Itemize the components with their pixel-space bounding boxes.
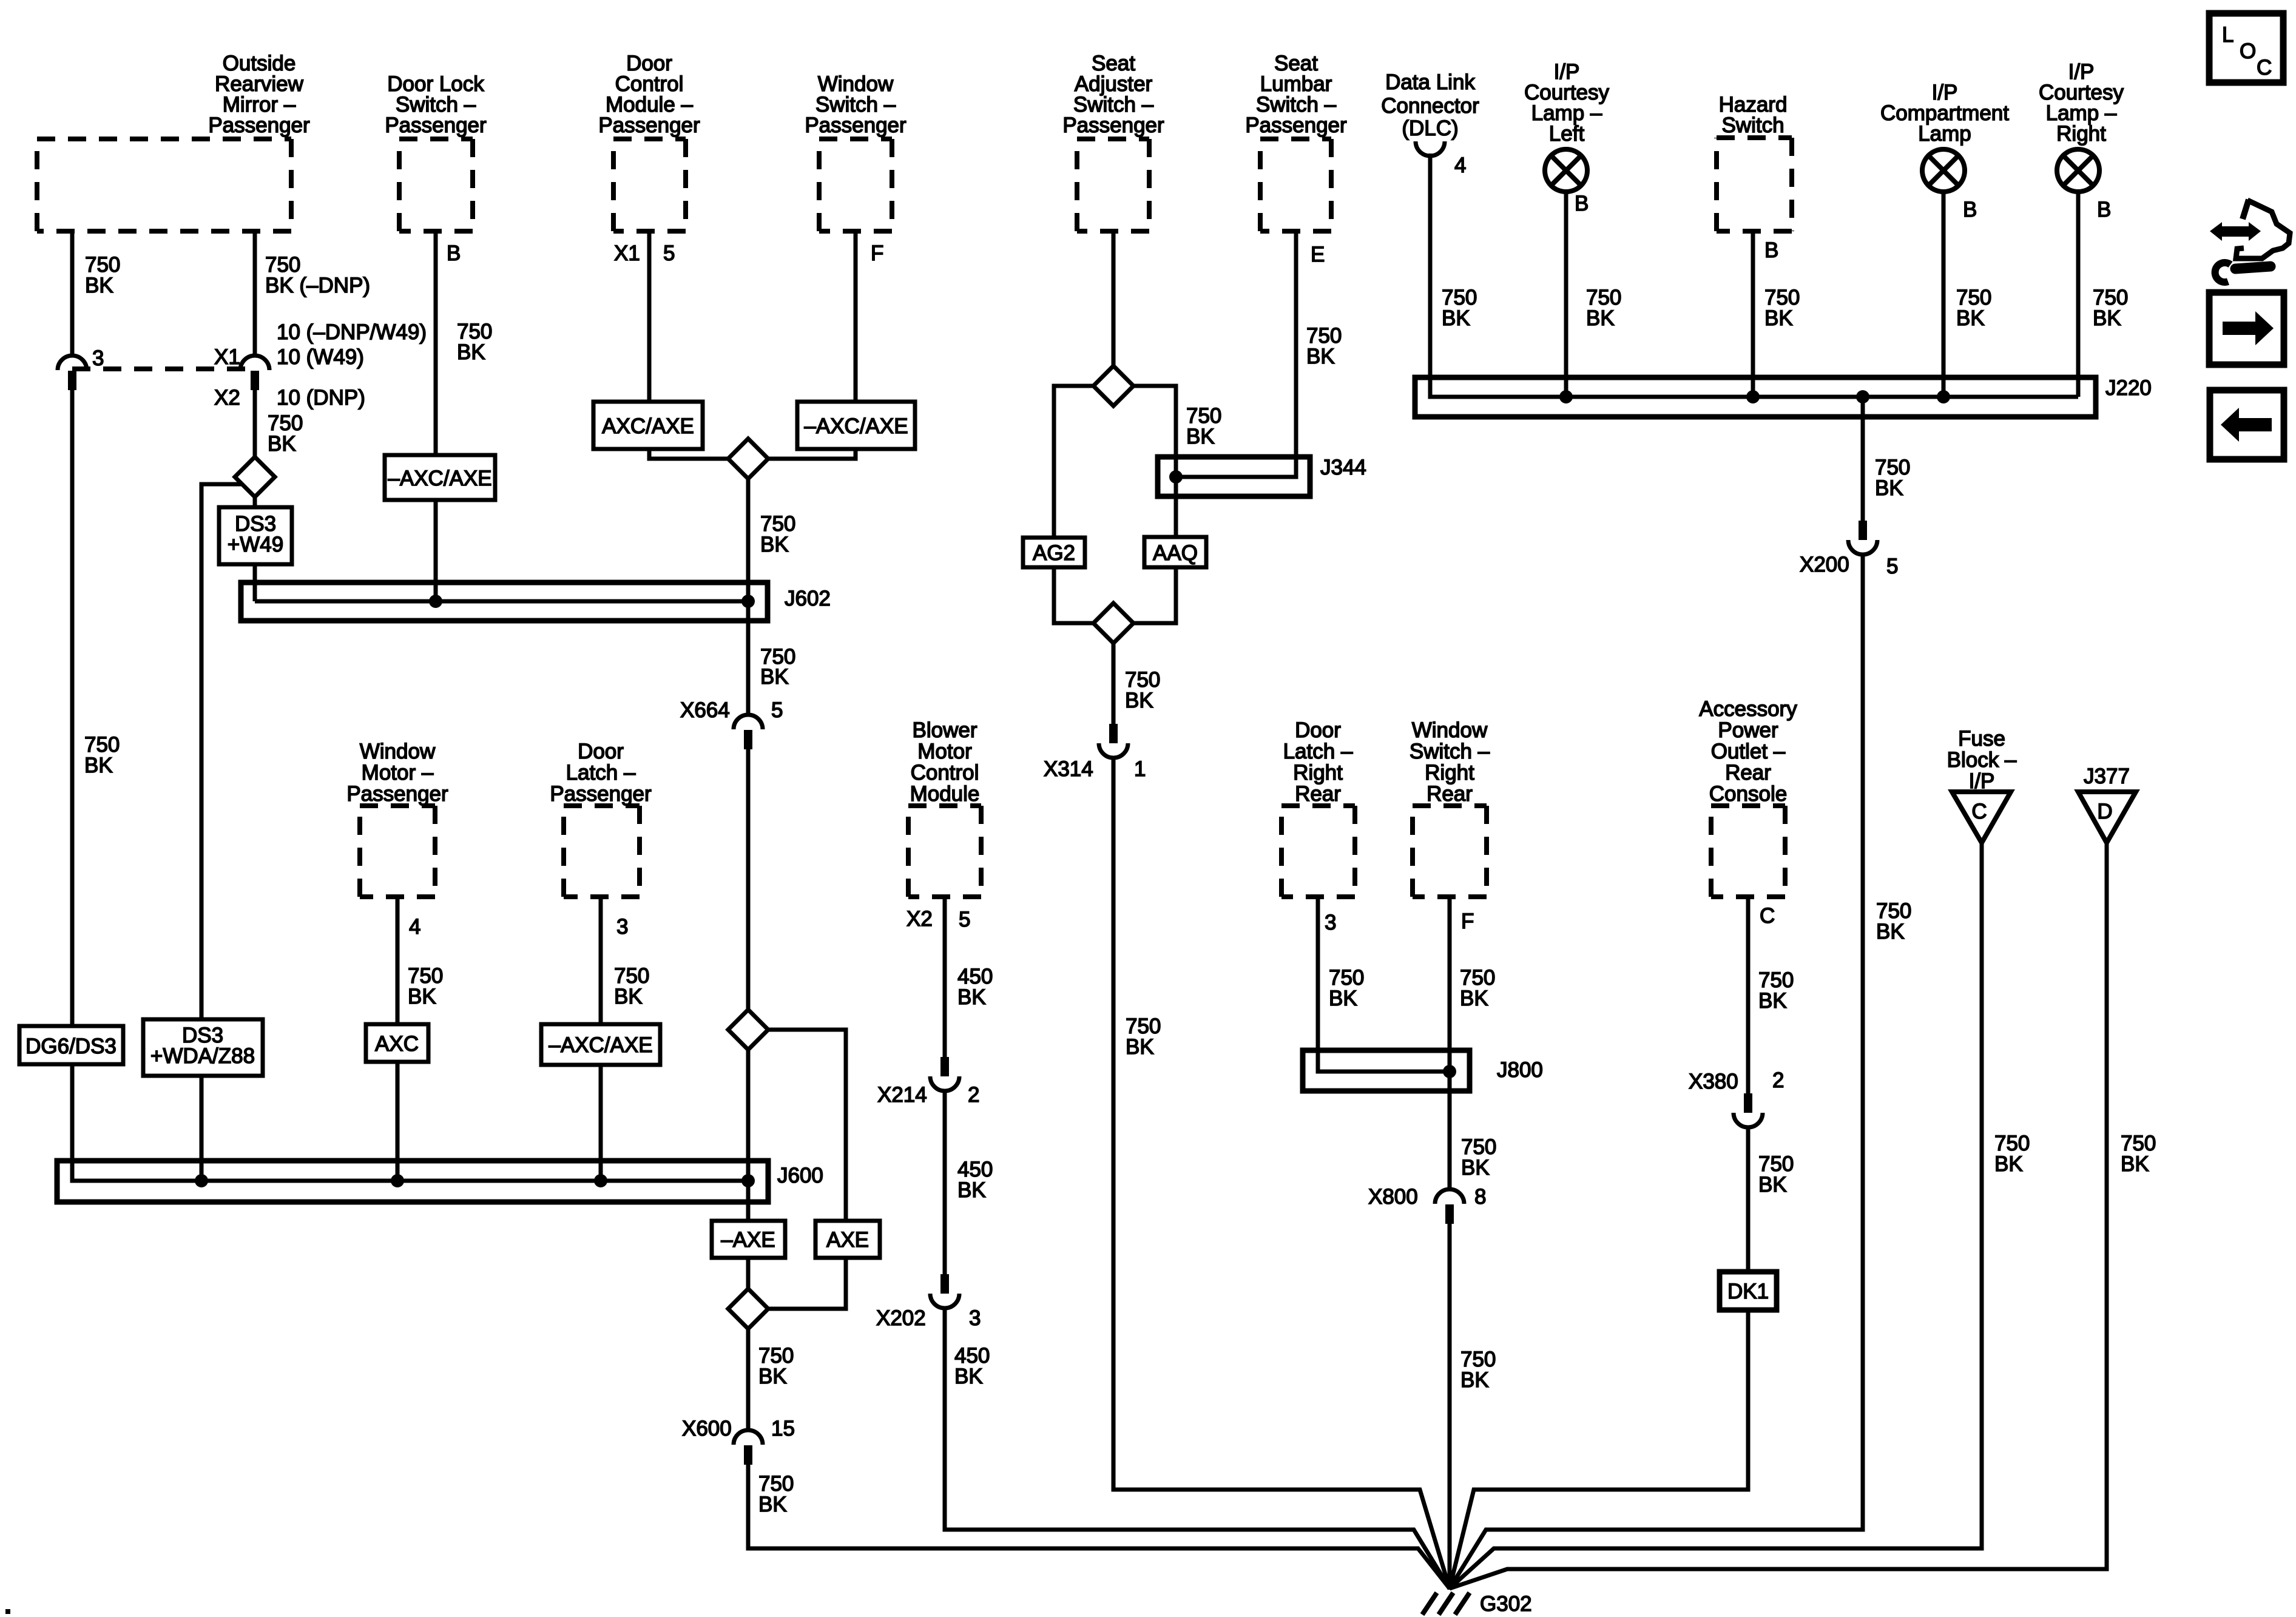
svg-text:AAQ: AAQ: [1153, 541, 1198, 565]
svg-text:F: F: [871, 241, 883, 265]
box AXC: [366, 1024, 428, 1062]
label 750 BK above X600: [758, 1344, 794, 1388]
svg-text:BK: BK: [1306, 345, 1335, 368]
svg-text:Passenger: Passenger: [550, 782, 652, 806]
label 750 BK compartment lamp: [1956, 286, 1991, 330]
svg-text:X200: X200: [1800, 553, 1849, 576]
svg-text:Window: Window: [1412, 718, 1488, 742]
svg-text:+W49: +W49: [228, 533, 283, 556]
label 750 BK J377: [2121, 1132, 2156, 1176]
wire connector 3 to DG6/DS3: [70, 389, 75, 1026]
svg-text:Power: Power: [1718, 718, 1778, 742]
junction block J600: [57, 1161, 823, 1202]
connector X202 (inline): [876, 1274, 981, 1330]
svg-text:+WDA/Z88: +WDA/Z88: [150, 1044, 255, 1068]
box DS3+WDA/Z88: [143, 1019, 263, 1076]
component Window Switch - Right Rear: [1410, 718, 1490, 897]
svg-text:Data Link: Data Link: [1385, 70, 1475, 94]
wire lamp left pin B to J220: [1564, 192, 1568, 397]
svg-text:BK: BK: [758, 1493, 787, 1516]
label 450 BK blower upper: [957, 965, 993, 1009]
lamp I/P Compartment Lamp: [1880, 81, 2009, 192]
component Door Control Module - Passenger: [598, 52, 700, 231]
svg-text:X800: X800: [1368, 1185, 1418, 1209]
wire door latch pin 3: [599, 897, 603, 1024]
label 750 BK above G302: [1460, 1348, 1496, 1392]
wire diamond to X600: [746, 1329, 751, 1430]
svg-text:BK: BK: [408, 985, 436, 1008]
box -AXC/AXE door lock: [385, 455, 495, 500]
svg-text:(DLC): (DLC): [1402, 116, 1458, 140]
component Door Latch - Passenger: [550, 740, 652, 897]
svg-text:J800: J800: [1497, 1058, 1543, 1082]
svg-text:3: 3: [616, 915, 628, 939]
wire courtesy lamp right pin B to J220: [2076, 192, 2081, 397]
svg-text:Passenger: Passenger: [1062, 113, 1164, 137]
svg-text:J377: J377: [2084, 765, 2130, 788]
svg-text:Window: Window: [360, 740, 436, 763]
svg-text:Control: Control: [911, 761, 979, 785]
wire X214 to X202: [943, 1090, 947, 1274]
svg-text:C: C: [1760, 904, 1775, 928]
svg-text:Outlet –: Outlet –: [1711, 740, 1786, 763]
svg-text:Passenger: Passenger: [598, 113, 700, 137]
svg-text:Console: Console: [1709, 782, 1787, 806]
wire diamond right branch to AXE: [768, 1030, 846, 1221]
wire Door Control Module pin X1-5: [647, 231, 652, 402]
svg-text:Connector: Connector: [1381, 94, 1479, 118]
wire J220 to X200: [1861, 397, 1865, 521]
wire -AXE to diamond: [746, 1258, 751, 1289]
junction block J800: [1303, 1050, 1543, 1091]
svg-text:X214: X214: [877, 1083, 927, 1107]
svg-text:F: F: [1461, 910, 1474, 933]
label 750 BK door lock: [457, 320, 492, 364]
connector X200 (inline): [1800, 521, 1898, 578]
svg-text:X600: X600: [682, 1417, 732, 1440]
connector X800 (inline): [1368, 1185, 1486, 1224]
svg-text:BK: BK: [1460, 1368, 1489, 1392]
wire X800 to G302: [1448, 1223, 1452, 1590]
label 750 BK below X380: [1758, 1152, 1794, 1197]
wire X202 to G302: [945, 1308, 1450, 1588]
svg-text:X1: X1: [614, 241, 640, 265]
icon service tool (arrow, outline, wrench): [2210, 200, 2290, 282]
svg-text:BK: BK: [760, 665, 789, 689]
svg-text:BK: BK: [1758, 1173, 1787, 1197]
connector X664 (inline): [680, 698, 783, 749]
svg-text:Switch: Switch: [1721, 113, 1784, 137]
svg-text:3: 3: [1325, 911, 1336, 934]
svg-text:AXC/AXE: AXC/AXE: [602, 414, 694, 438]
component Accessory Power Outlet - Rear Console: [1699, 697, 1797, 897]
label 750 BK below X600: [758, 1472, 794, 1516]
svg-text:15: 15: [771, 1417, 795, 1440]
svg-text:Block –: Block –: [1947, 748, 2017, 772]
icon LOC legend box: [2209, 13, 2283, 83]
box AXE: [815, 1221, 880, 1258]
label 750 BK above X314: [1125, 668, 1160, 712]
wire blower pin X2-5: [943, 897, 947, 1057]
component Hazard Switch: [1717, 93, 1792, 231]
wire AXC/AXE to diamond: [649, 449, 728, 459]
svg-text:AXE: AXE: [826, 1228, 869, 1252]
wire diamond left branch to DS3+WDA/Z88: [201, 484, 242, 1019]
label 750 BK hazard: [1764, 286, 1800, 330]
wire hazard pin B to J220: [1751, 231, 1755, 397]
label 750 BK door latch: [614, 964, 649, 1008]
wire DG6/DS3 to J600: [72, 1064, 748, 1181]
connector X1/X2 (inline): [240, 356, 269, 390]
svg-text:BK: BK: [1586, 306, 1615, 330]
svg-text:J344: J344: [1320, 456, 1366, 479]
svg-text:BK: BK: [760, 533, 789, 556]
label 750 BK AAQ branch: [1186, 404, 1221, 448]
label 750 BK lamp left: [1586, 286, 1621, 330]
svg-text:5: 5: [1886, 555, 1898, 578]
svg-text:BK: BK: [1875, 476, 1903, 500]
svg-text:B: B: [1963, 198, 1977, 221]
wire X200 to G302: [1450, 554, 1863, 1588]
svg-text:B: B: [2097, 198, 2111, 221]
component Window Motor - Passenger: [346, 740, 448, 897]
wire X314 to G302: [1113, 757, 1450, 1588]
label 450 BK blower middle: [957, 1158, 993, 1202]
svg-text:Right: Right: [1293, 761, 1343, 785]
wire X2 to splice diamond: [253, 389, 257, 457]
svg-text:BK: BK: [954, 1365, 983, 1388]
wire -AXC/AXE to J600: [599, 1065, 603, 1181]
wire diamond to DS3+W49: [253, 497, 257, 507]
svg-text:DK1: DK1: [1727, 1280, 1769, 1303]
svg-text:BK: BK: [2093, 306, 2121, 330]
lamp I/P Courtesy Lamp - Left: [1524, 60, 1610, 192]
svg-text:J220: J220: [2105, 376, 2152, 400]
svg-text:BK: BK: [1329, 987, 1357, 1010]
box AG2: [1023, 538, 1085, 567]
svg-text:BK (–DNP): BK (–DNP): [265, 274, 370, 297]
wire X380 to DK1: [1746, 1127, 1751, 1272]
box -AXC/AXE door latch: [541, 1024, 660, 1065]
svg-text:BK: BK: [1758, 989, 1787, 1013]
wire X600 to G302: [748, 1463, 1450, 1588]
connector X600 (inline): [682, 1417, 795, 1465]
svg-text:Right: Right: [1425, 761, 1474, 785]
wire diamond down through J602 to X664: [746, 479, 751, 715]
svg-text:AG2: AG2: [1033, 541, 1075, 565]
wire mirror right pin to connector X1: [253, 231, 257, 356]
box -AXE: [712, 1221, 785, 1258]
svg-text:Lamp: Lamp: [1918, 122, 1971, 146]
svg-text:B: B: [1575, 192, 1589, 215]
splice diamond X600: [728, 1289, 768, 1329]
connector 3 (inline): [58, 356, 87, 390]
wire diamond left to AG2: [1054, 386, 1093, 538]
label 750 BK seat lumbar: [1306, 324, 1342, 368]
component Seat Lumbar Switch - Passenger: [1245, 52, 1347, 231]
label 750 BK mirror left: [85, 253, 120, 297]
svg-text:BK: BK: [1442, 306, 1470, 330]
component J377 connector D: [2078, 765, 2136, 843]
svg-text:BK: BK: [268, 432, 296, 456]
svg-text:L: L: [2222, 23, 2234, 47]
splice diamond seat adjuster top: [1093, 366, 1133, 406]
svg-text:Right: Right: [2056, 122, 2106, 146]
svg-text:5: 5: [771, 698, 783, 722]
svg-text:C: C: [1971, 800, 1987, 823]
svg-text:BK: BK: [1186, 425, 1215, 448]
svg-text:10 (W49): 10 (W49): [277, 345, 364, 369]
svg-text:1: 1: [1134, 757, 1146, 781]
svg-text:G302: G302: [1480, 1592, 1532, 1616]
svg-text:B: B: [447, 241, 461, 265]
label 750 BK above J602: [760, 512, 795, 556]
label 750 BK window switch RR: [1460, 966, 1495, 1010]
label 750 BK door latch RR: [1329, 966, 1364, 1010]
wire diamond down through J600 to -AXE: [746, 1050, 751, 1221]
svg-text:10 (–DNP/W49): 10 (–DNP/W49): [277, 320, 427, 344]
svg-text:BK: BK: [84, 754, 113, 777]
component Seat Adjuster Switch - Passenger: [1062, 52, 1164, 231]
svg-text:Door: Door: [1295, 718, 1341, 742]
stray mark bottom-left: [5, 1609, 10, 1614]
svg-text:E: E: [1311, 243, 1325, 266]
box DS3+W49: [219, 507, 292, 564]
svg-text:Rear: Rear: [1725, 761, 1771, 785]
svg-text:Motor –: Motor –: [362, 761, 434, 785]
connector X214 (inline): [877, 1057, 979, 1107]
label 750 BK above X200: [1875, 456, 1910, 500]
svg-text:Motor: Motor: [917, 740, 972, 763]
label 750 BK (-DNP): [265, 253, 370, 297]
wire Seat Lumbar pin E to J344: [1176, 231, 1296, 477]
svg-text:J600: J600: [777, 1164, 823, 1187]
label 750 BK below X200: [1876, 899, 1911, 944]
svg-text:–AXC/AXE: –AXC/AXE: [804, 414, 908, 438]
wire compartment lamp pin B to J220: [1942, 192, 1946, 397]
component Door Lock Switch - Passenger: [385, 72, 487, 231]
wire fuse block C to G302: [1450, 843, 1982, 1588]
splice diamond seat adjuster bottom: [1093, 603, 1133, 643]
icon left arrow box: [2210, 390, 2284, 459]
component Fuse Block - I/P: [1947, 727, 2017, 843]
label 750 BK DLC: [1442, 286, 1477, 330]
svg-text:BK: BK: [1764, 306, 1793, 330]
wire DK1 to G302: [1450, 1310, 1748, 1588]
wire mirror left pin to connector 3: [70, 231, 75, 356]
junction block J220: [1415, 376, 2152, 417]
svg-text:BK: BK: [457, 340, 485, 364]
svg-text:5: 5: [663, 241, 675, 265]
svg-text:X664: X664: [680, 698, 730, 722]
svg-text:–AXC/AXE: –AXC/AXE: [549, 1033, 652, 1057]
svg-text:DG6/DS3: DG6/DS3: [25, 1035, 116, 1058]
svg-text:X314: X314: [1044, 757, 1093, 781]
svg-text:Rear: Rear: [1295, 782, 1341, 806]
svg-text:BK: BK: [1461, 1156, 1490, 1180]
label 750 BK acc power outlet: [1758, 968, 1794, 1013]
wire window switch RR pin F through J800 to X800: [1448, 897, 1452, 1190]
component Outside Rearview Mirror - Passenger: [37, 52, 310, 231]
svg-text:BK: BK: [957, 985, 986, 1009]
splice diamond AXE: [728, 1010, 768, 1050]
ground G302: [1422, 1592, 1532, 1616]
svg-text:BK: BK: [758, 1365, 787, 1388]
svg-text:O: O: [2240, 39, 2256, 63]
component Window Switch - Passenger: [805, 72, 907, 231]
label 750 BK window motor: [408, 964, 443, 1008]
svg-text:Passenger: Passenger: [385, 113, 487, 137]
svg-text:Left: Left: [1549, 122, 1585, 146]
wire AAQ to lower diamond: [1133, 567, 1176, 623]
wire -AXC/AXE to diamond right: [768, 449, 856, 459]
svg-text:Switch –: Switch –: [1410, 740, 1490, 763]
wire window motor pin 4: [396, 897, 400, 1024]
svg-text:Blower: Blower: [913, 718, 977, 742]
box AXC/AXE: [593, 402, 703, 449]
svg-text:BK: BK: [2121, 1152, 2149, 1176]
svg-text:10 (DNP): 10 (DNP): [277, 386, 365, 410]
connector X314 (inline): [1044, 724, 1146, 781]
svg-text:2: 2: [1772, 1068, 1784, 1092]
junction block J344: [1158, 456, 1366, 496]
label 750 BK below X314: [1126, 1014, 1161, 1059]
svg-text:D: D: [2097, 800, 2112, 823]
wire -AXC/AXE to J602: [434, 500, 438, 601]
label 750 BK fuse block: [1994, 1132, 2030, 1176]
svg-text:3: 3: [969, 1306, 981, 1330]
wire DS3+WDA/Z88 to J600: [200, 1076, 204, 1181]
icon right arrow box: [2209, 292, 2284, 365]
svg-text:Passenger: Passenger: [805, 113, 907, 137]
svg-text:Latch –: Latch –: [1283, 740, 1353, 763]
wire Seat Adjuster pin B to diamond: [1112, 231, 1116, 366]
svg-text:Fuse: Fuse: [1958, 727, 2005, 751]
label 450 BK blower lower: [954, 1344, 990, 1388]
svg-text:2: 2: [968, 1083, 979, 1107]
svg-text:X2: X2: [214, 386, 240, 410]
svg-text:Module: Module: [910, 782, 980, 806]
junction block J602: [241, 582, 831, 621]
svg-text:3: 3: [92, 346, 104, 370]
wire door latch RR pin 3 to J800: [1318, 897, 1450, 1072]
box DG6/DS3: [19, 1026, 123, 1064]
wire diamond to X314: [1112, 643, 1116, 724]
svg-text:BK: BK: [1460, 987, 1488, 1010]
svg-text:BK: BK: [1126, 1035, 1154, 1059]
wire X664 to diamond: [746, 748, 751, 1010]
svg-text:X380: X380: [1689, 1070, 1738, 1093]
component Data Link Connector (DLC): [1381, 70, 1479, 156]
box -AXC/AXE window switch: [797, 402, 915, 449]
svg-text:BK: BK: [1876, 920, 1905, 944]
wire J377 D to G302: [1450, 843, 2107, 1588]
svg-text:4: 4: [1454, 154, 1466, 177]
label 750 BK courtesy lamp right: [2093, 286, 2128, 330]
wire Door Lock Switch pin B: [434, 231, 438, 455]
dashed connector face line: [72, 366, 255, 371]
svg-text:–AXC/AXE: –AXC/AXE: [388, 467, 491, 490]
splice diamond DS3 branch: [235, 457, 275, 497]
svg-text:8: 8: [1474, 1185, 1486, 1209]
svg-text:4: 4: [409, 915, 420, 939]
svg-text:B: B: [1764, 238, 1778, 262]
wire AXC to J600: [396, 1062, 400, 1181]
svg-text:BK: BK: [1994, 1152, 2023, 1176]
svg-text:–AXE: –AXE: [721, 1228, 775, 1252]
wire AXE to diamond right vertex: [768, 1258, 846, 1309]
label 750 BK mirror left lower: [84, 733, 120, 777]
splice diamond AXC/AXE: [728, 439, 768, 479]
svg-text:Rear: Rear: [1427, 782, 1473, 806]
svg-text:BK: BK: [614, 985, 643, 1008]
svg-text:C: C: [2257, 56, 2272, 79]
svg-text:X1: X1: [214, 345, 240, 369]
svg-text:BK: BK: [85, 274, 113, 297]
wire DS3+W49 to J602: [253, 564, 257, 601]
svg-text:Latch –: Latch –: [566, 761, 636, 785]
box AAQ: [1144, 537, 1206, 567]
svg-text:Passenger: Passenger: [346, 782, 448, 806]
wire acc power outlet pin C to X380: [1746, 897, 1751, 1093]
component Door Latch - Right Rear: [1281, 718, 1355, 897]
wire DLC pin 4 to J220: [1430, 154, 2078, 397]
svg-text:BK: BK: [1956, 306, 1985, 330]
label 750 BK below J602: [760, 645, 795, 689]
svg-text:Passenger: Passenger: [208, 113, 310, 137]
svg-text:Accessory: Accessory: [1699, 697, 1797, 721]
label 750 BK below J800: [1461, 1135, 1496, 1180]
wire AG2 to lower diamond: [1054, 567, 1093, 623]
box DK1: [1720, 1272, 1777, 1310]
svg-text:AXC: AXC: [375, 1032, 419, 1056]
wire Window Switch pin F: [854, 231, 858, 402]
component Blower Motor Control Module: [908, 718, 981, 897]
svg-text:Passenger: Passenger: [1245, 113, 1347, 137]
svg-text:Door: Door: [578, 740, 624, 763]
label 750 BK below X2: [268, 411, 303, 456]
svg-text:X202: X202: [876, 1306, 926, 1330]
svg-text:BK: BK: [1125, 689, 1153, 712]
svg-text:J602: J602: [785, 587, 831, 610]
connector X380 (inline): [1689, 1068, 1784, 1127]
svg-text:BK: BK: [957, 1178, 986, 1202]
wire diamond right to AAQ through J344: [1133, 386, 1176, 537]
svg-text:X2: X2: [907, 907, 933, 931]
lamp I/P Courtesy Lamp - Right: [2039, 60, 2124, 192]
svg-text:5: 5: [959, 908, 970, 931]
